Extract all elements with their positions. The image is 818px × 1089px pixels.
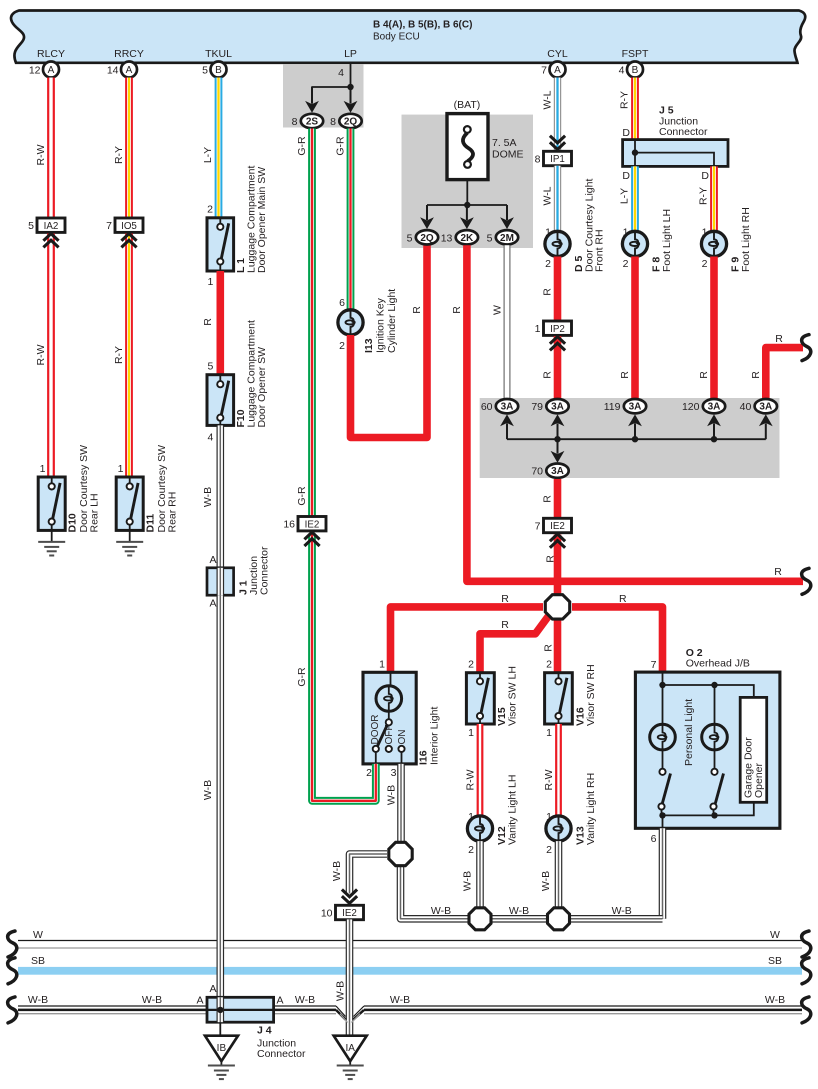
wire W-B splice3 to O2 [570,915,663,923]
svg-text:6: 6 [339,297,345,309]
svg-text:2: 2 [207,204,213,216]
svg-text:4: 4 [619,65,625,77]
wire fuse rail [427,204,507,206]
O2 dot top a [659,682,665,688]
pin 12-A RLCY [29,62,59,78]
wire W-B IE2-10 to IA [346,919,354,1035]
svg-text:Foot Light LH: Foot Light LH [661,209,673,272]
label D10 [67,445,101,533]
svg-text:W-B: W-B [612,905,632,917]
arrow into fuse 2K [460,205,474,229]
svg-text:Overhead J/B: Overhead J/B [686,658,750,670]
switch V15 Visor SW LH [466,673,494,724]
svg-text:IE2: IE2 [305,519,320,530]
O2 dot top b [711,682,717,688]
wire R F8 to 3A-119 [631,257,639,399]
svg-text:W-B: W-B [335,981,347,1001]
wire W-B through J4 [217,997,225,1022]
svg-text:5: 5 [207,361,213,373]
label D11 [145,445,179,533]
wire LP branch to 2S [312,87,351,100]
O2 internal top rail [663,672,754,697]
lamp inside I16 [376,672,402,711]
wire R continuation top right [766,348,803,399]
arrow into 3A-70 [551,439,565,463]
svg-text:W-B: W-B [540,871,552,891]
svg-text:8: 8 [330,116,336,128]
svg-text:R: R [698,371,710,379]
wire R L1 to F10 [217,271,225,375]
wire R-Y IO5 to D11 [125,234,133,478]
chevron IE2-7 [550,534,565,548]
svg-text:Body ECU: Body ECU [373,32,420,43]
svg-text:D: D [622,127,630,139]
switch inside I16 [373,711,405,764]
svg-text:2: 2 [546,659,552,671]
switch L1 Luggage Compartment Door Opener Main SW [207,218,234,271]
svg-text:3A: 3A [759,402,772,413]
svg-text:2Q: 2Q [420,233,434,244]
W-B bus merge diagonals at IA wire [336,1006,364,1023]
svg-text:2S: 2S [306,117,319,128]
wire W-L CYL to IP1 [554,78,561,151]
svg-text:W-B: W-B [202,487,214,507]
ground D10 [38,530,65,555]
squiggle mid rail [802,568,811,594]
labels DOOR OFF ON [370,715,408,745]
svg-text:R-W: R-W [35,344,47,365]
svg-text:119: 119 [604,401,621,413]
label F10 [235,320,268,427]
wire W-B V13 to splice [555,841,563,910]
svg-text:R-Y: R-Y [113,146,125,164]
wire R splice to O2 [572,607,663,672]
svg-text:W-B: W-B [142,994,162,1006]
connector IE2-7 [535,518,572,532]
svg-text:R: R [542,371,554,379]
connector oval fuse 2Q [407,230,439,244]
Body ECU banner [11,11,805,63]
svg-text:R: R [750,371,762,379]
svg-text:R: R [542,495,554,503]
svg-text:B: B [632,65,639,76]
svg-text:RLCY: RLCY [37,48,65,60]
svg-text:R: R [451,306,463,314]
svg-text:R: R [202,318,214,326]
bus W-B middle segment [274,1006,336,1014]
connector IE2-16 [283,517,326,531]
wire R-Y RRCY to IO5 [125,78,133,219]
chevron IO5 [121,234,136,248]
svg-text:W-B: W-B [390,994,410,1006]
svg-text:W: W [492,305,504,315]
wire W-B splice2 to splice3 [490,915,548,923]
svg-text:2: 2 [366,767,372,779]
interior light I16 box [363,672,416,764]
svg-text:W-B: W-B [386,785,398,805]
lamp D5 Door Courtesy Light Front RH [545,231,570,256]
wire rail inside 3A block [507,438,766,440]
switch F10 Luggage Compartment Door Opener SW [207,375,234,426]
svg-text:A: A [48,65,55,76]
svg-text:R: R [619,371,631,379]
splice octagon 1 [389,842,412,865]
wire G-R 2S down to IE2 [308,129,316,518]
label J1 [238,546,271,595]
label I16 [418,707,441,765]
svg-text:7. 5A: 7. 5A [492,137,517,149]
svg-text:A: A [196,995,203,1007]
arrow into fuse 2M [500,205,514,229]
svg-text:W-L: W-L [542,186,554,205]
svg-text:3A: 3A [501,402,514,413]
pin 14-A RRCY [107,62,137,78]
overhead J/B O2 box [635,672,780,828]
svg-text:R: R [775,333,783,345]
ground triangle IB [205,1036,238,1062]
svg-text:4: 4 [207,432,213,444]
wire J4 to ground IB [219,1022,221,1035]
svg-text:2: 2 [545,258,551,270]
svg-text:Foot Light RH: Foot Light RH [740,207,752,272]
svg-text:G-R: G-R [296,486,308,506]
O2 switch 2 [710,750,723,816]
connector oval fuse 2M [487,230,519,244]
label V16 [575,664,598,726]
pin 5-B TKUL [202,62,226,78]
splice octagon 2 [469,908,491,930]
connector IO5 [106,218,143,232]
lamp V12 Vanity Light LH [467,816,492,841]
svg-text:2: 2 [546,844,552,856]
svg-text:R: R [411,306,423,314]
label F9 [730,207,753,272]
connector IP2 [535,321,572,335]
svg-text:R: R [774,566,782,578]
svg-text:D10: D10 [67,513,79,532]
svg-text:ON: ON [397,730,408,745]
wire R F9 to 3A-120 [710,257,718,399]
squiggle top rail [802,335,811,361]
wire R IE2-7 to splice [554,535,562,599]
svg-text:2: 2 [468,659,474,671]
svg-text:G-R: G-R [335,136,347,156]
wire R-Y FSPT to J5 [631,78,639,140]
svg-text:2: 2 [339,340,345,352]
svg-text:Cylinder Light: Cylinder Light [386,289,398,353]
svg-text:70: 70 [531,466,543,478]
svg-text:W-B: W-B [331,861,343,881]
svg-text:W: W [770,929,780,941]
svg-text:13: 13 [441,232,453,244]
svg-text:12: 12 [29,65,41,77]
wire G-R I16 to IE2-16 [312,534,376,801]
label V12 [496,775,519,845]
squiggle W bus left [8,931,17,957]
squiggle SB bus left [8,958,17,984]
svg-text:A: A [126,65,133,76]
connector IA2 [28,218,65,232]
svg-text:G-R: G-R [296,136,308,156]
chevron IE2-10 [342,890,357,904]
wire G-R 2Q to I13 [347,129,355,311]
svg-text:Vanity Light RH: Vanity Light RH [585,773,597,845]
wire R-W RLCY to IA2 [47,78,55,219]
chevron IE2-16 [304,532,319,546]
switch D10 Door Courtesy SW Rear LH [38,477,65,530]
wire W-B F10 to J1 [217,425,225,567]
lamp personal light 1 [650,724,676,750]
connector oval 2Q [330,114,362,128]
junction dot J4 [217,1007,223,1013]
connector oval 3A-79 [531,399,568,413]
garage door opener box [740,697,767,802]
svg-text:10: 10 [321,908,333,920]
squiggle SB bus right [802,958,811,984]
svg-text:5: 5 [487,232,493,244]
svg-text:Ignition Key: Ignition Key [375,297,387,353]
svg-text:CYL: CYL [547,48,568,60]
arrow into 3A-120 [707,414,721,439]
junction connector J5 [623,140,728,167]
svg-text:Door Opener Main SW: Door Opener Main SW [256,167,268,273]
svg-text:2Q: 2Q [344,117,358,128]
svg-text:B 4(A), B 5(B), B 6(C): B 4(A), B 5(B), B 6(C) [373,20,472,31]
svg-text:R-Y: R-Y [698,187,710,205]
svg-text:L-Y: L-Y [619,188,631,204]
wire R-Y J5 to F9 [710,166,718,231]
svg-text:RRCY: RRCY [114,48,144,60]
svg-text:W: W [33,929,43,941]
svg-text:W-B: W-B [765,994,785,1006]
O2 dot bottom a [659,812,665,818]
connector oval 2S [292,114,324,128]
switch V16 Visor SW RH [545,673,573,724]
fuse block gray area [402,115,534,248]
svg-text:3: 3 [391,767,397,779]
svg-text:Opener: Opener [753,762,765,798]
svg-text:A: A [209,598,216,610]
chevron IP2 [550,337,565,351]
wire W-B O2 pin6 [659,828,667,919]
svg-text:R-Y: R-Y [619,91,631,109]
label V13 [575,773,598,845]
svg-text:120: 120 [682,401,700,413]
lamp F9 Foot Light RH [701,231,726,256]
O2 switch 1 [658,750,670,816]
svg-text:1: 1 [546,727,552,739]
svg-text:A: A [209,983,216,995]
junction connector J4 [207,997,274,1022]
squiggle W-B bus left [8,997,17,1023]
bus W-B right segment [364,1006,802,1014]
svg-text:A: A [209,554,216,566]
label L1 [235,166,268,273]
svg-text:W-B: W-B [202,780,214,800]
svg-text:2: 2 [468,844,474,856]
svg-text:R-Y: R-Y [113,346,125,364]
svg-text:Connector: Connector [257,1048,306,1060]
label F8 [651,209,674,272]
svg-text:Rear LH: Rear LH [89,493,101,532]
svg-text:1: 1 [379,659,385,671]
wire W-B J1 to J4 [217,595,225,997]
arrow into 3A-119 [628,414,642,439]
wire R splice to V16 [554,620,562,673]
junction dot fuse rail [464,202,470,208]
svg-text:1: 1 [40,463,46,475]
svg-text:TKUL: TKUL [205,48,232,60]
splice octagon main [545,595,569,619]
svg-text:8: 8 [535,154,541,166]
O2 dot bottom b [711,812,717,818]
svg-text:W-B: W-B [28,994,48,1006]
svg-text:SB: SB [768,955,782,967]
chevron IA2 [43,234,58,248]
svg-text:1: 1 [118,463,124,475]
svg-text:IP2: IP2 [550,324,565,335]
svg-text:J 4: J 4 [257,1025,272,1037]
wire W-B through J1 [217,568,225,595]
wire R-W V16 to V13 [555,724,562,816]
wire R I13 to fuse 2Q [351,245,428,437]
svg-text:IB: IB [217,1043,227,1054]
svg-text:14: 14 [107,65,119,77]
3A junction gray block [480,398,780,478]
label Personal Light [683,699,695,766]
svg-text:DOME: DOME [492,149,524,161]
arrow into 3A-79 [551,414,565,439]
svg-text:1: 1 [535,323,541,335]
svg-text:3A: 3A [629,402,642,413]
bus W-B left segment [18,1006,207,1014]
svg-text:W-B: W-B [509,905,529,917]
junction dot 3A rail d [711,436,717,442]
wire W 2M to 3A-60 [504,245,511,398]
svg-text:R: R [543,644,555,652]
arrow into 3A-40 [759,414,773,439]
wire R splice to I16 [391,607,544,672]
svg-text:W-B: W-B [431,905,451,917]
junction dot 3A rail c [632,436,638,442]
splice octagon 3 [548,908,570,930]
svg-text:40: 40 [740,401,752,413]
svg-text:IP1: IP1 [550,154,565,165]
connector oval fuse 2K [441,230,478,244]
bus W line [18,940,802,942]
wire L-Y TKUL to L1 [215,78,223,218]
svg-text:OFF: OFF [384,725,395,745]
O2 internal bottom rail [663,802,754,815]
pin 4-B FSPT [619,62,643,78]
wire W-B I16 pin3 [397,764,405,841]
LP connector gray block [283,65,364,128]
svg-text:R: R [501,593,509,605]
arrow into fuse 2Q [420,205,434,229]
connector oval 3A-40 [740,399,777,413]
wire fuse to rail [466,180,468,205]
svg-text:Door Opener SW: Door Opener SW [256,347,268,428]
arrow into 2S [305,87,319,113]
junction connector J1 [207,568,234,595]
wire R 3A-70 to IE2-7 [554,479,562,519]
svg-text:(BAT): (BAT) [454,99,481,111]
svg-text:DOOR: DOOR [370,715,381,745]
svg-text:7: 7 [651,659,657,671]
svg-text:7: 7 [541,65,547,77]
wire R-W V15 to V12 [477,724,484,816]
svg-text:R-W: R-W [35,144,47,165]
svg-text:Personal Light: Personal Light [683,699,695,766]
lamp F8 Foot Light LH [622,231,647,256]
chevron IP1 [550,136,565,150]
svg-text:FSPT: FSPT [622,48,649,60]
svg-text:4: 4 [338,67,344,79]
connector IE2-10 [321,905,364,919]
switch D11 Door Courtesy SW Rear RH [116,477,143,530]
wire R 2K to rail and right [467,245,803,581]
fuse 7.5A DOME [447,114,488,180]
bus SB line [18,967,802,975]
lamp I13 Ignition Key Cylinder Light [338,310,363,335]
ground symbol IB [208,1061,235,1079]
svg-text:W-L: W-L [542,90,554,109]
arrow into 3A-60 [500,414,514,439]
svg-text:6: 6 [651,833,657,845]
squiggle W bus right [802,931,811,957]
svg-text:B: B [215,65,222,76]
svg-text:R: R [501,619,509,631]
svg-text:2K: 2K [461,233,475,244]
svg-text:R: R [542,288,554,296]
label V15 [496,666,519,726]
wire W-B V12 to splice [476,841,484,910]
svg-text:Visor SW LH: Visor SW LH [507,666,519,726]
svg-text:5: 5 [407,232,413,244]
label D5 [573,179,606,272]
ground triangle IA [334,1036,367,1062]
wire W-L IP1 to D5 [554,166,561,232]
ground symbol IA [337,1061,364,1079]
svg-text:IO5: IO5 [121,221,137,232]
ground D11 [116,530,143,555]
svg-text:79: 79 [531,401,543,413]
svg-text:2: 2 [702,258,708,270]
svg-text:3A: 3A [551,466,564,477]
connector oval 3A-70 [531,464,568,478]
svg-text:A: A [277,995,284,1007]
svg-text:16: 16 [283,519,295,531]
wire R-W IA2 to D10 [47,234,55,478]
svg-text:IE2: IE2 [550,521,565,532]
connector oval 3A-119 [604,399,646,413]
svg-text:R: R [545,555,557,563]
svg-text:IA: IA [345,1043,355,1054]
svg-text:SB: SB [31,955,45,967]
svg-text:LP: LP [344,48,357,60]
svg-text:D: D [622,170,630,182]
svg-text:2: 2 [623,258,629,270]
svg-text:1: 1 [468,727,474,739]
svg-text:W-B: W-B [462,871,474,891]
svg-text:7: 7 [535,521,541,533]
wire W-B splice1 left [350,854,388,894]
svg-text:60: 60 [481,401,493,413]
connector oval 3A-120 [682,399,725,413]
svg-text:W-B: W-B [295,994,315,1006]
svg-text:Rear RH: Rear RH [167,492,179,533]
arrow into 2Q [344,87,358,113]
